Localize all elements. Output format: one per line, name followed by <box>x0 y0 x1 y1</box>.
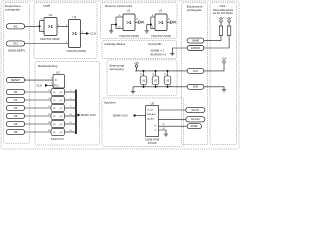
port A3 <box>6 113 24 118</box>
svg-text:74HCT02 (NOR): 74HCT02 (NOR) <box>40 37 60 41</box>
svg-text:U1: U1 <box>73 15 77 19</box>
ground U1d <box>145 31 149 34</box>
svg-text:D0-D7: D0-D7 <box>192 108 200 112</box>
node U1c open output <box>139 21 144 24</box>
port ROML <box>187 124 201 129</box>
svg-text:RESET: RESET <box>11 78 21 82</box>
svg-text:>1: >1 <box>158 20 164 25</box>
svg-text:(DE00-DEFF): (DE00-DEFF) <box>8 48 25 52</box>
port RESET <box>6 78 24 83</box>
wire EXROM tie low <box>172 48 187 53</box>
IC U2 74HCT174 control block <box>53 74 65 88</box>
svg-text:Cartridge-Modus:: Cartridge-Modus: <box>104 42 126 46</box>
power +5V R2 <box>227 16 232 26</box>
port GAME <box>187 38 204 43</box>
wire U3 A0-A12 <box>159 118 187 120</box>
section Reserve <box>101 3 178 39</box>
section Speicher <box>102 98 184 146</box>
wire U1c output stub <box>135 21 139 23</box>
IC U1 power unit <box>140 76 147 85</box>
wire U1a input tie <box>39 21 41 32</box>
svg-text:VCC: VCC <box>193 70 198 73</box>
junction PHI2 node <box>38 25 40 27</box>
svg-text:portsignale: portsignale <box>187 8 202 12</box>
junction +5V rail U3 <box>166 70 168 72</box>
wire GND to ground <box>204 87 224 90</box>
wire U1d output stub <box>167 21 171 23</box>
svg-text:U1: U1 <box>159 9 163 13</box>
wire U2 out 6Q <box>65 131 76 133</box>
svg-text:A0-A12: A0-A12 <box>147 118 155 121</box>
svg-text:IO1: IO1 <box>13 42 18 46</box>
svg-text:A3: A3 <box>14 114 18 118</box>
wire U1a out to U1b in <box>57 26 69 28</box>
port EXROM <box>187 46 204 51</box>
svg-text:A0-A12: A0-A12 <box>191 117 200 121</box>
wire IO1 to U1b <box>25 43 69 45</box>
wire U1d input pin9 <box>151 28 155 30</box>
op-amp U1c NOR gate <box>123 14 135 31</box>
svg-text:+5V: +5V <box>221 57 226 61</box>
wire U3 gnd pin <box>167 85 169 87</box>
svg-text:74HCT174: 74HCT174 <box>51 137 65 141</box>
svg-text:U1: U1 <box>142 78 146 82</box>
svg-text:+5V: +5V <box>218 16 223 20</box>
wire U1d input pin8 <box>151 16 155 18</box>
port A4 <box>6 121 24 126</box>
svg-text:74HCT02 (NOR): 74HCT02 (NOR) <box>151 34 171 38</box>
section Expansionsportsignale left <box>4 3 30 143</box>
wire U1c input tie <box>115 17 117 29</box>
wire U1 vcc pin <box>143 71 145 76</box>
svg-text:Normal 8k:: Normal 8k: <box>148 42 162 46</box>
ground EXROM <box>170 53 174 56</box>
wire U1d input tie <box>150 17 152 29</box>
svg-text:GND: GND <box>193 86 199 89</box>
node CLK source arrow <box>45 84 48 87</box>
port A5 <box>6 129 24 134</box>
wire U1a input pin2 <box>40 20 45 22</box>
wire U1c to ground <box>111 25 116 31</box>
wire A1 to U2 <box>25 99 51 101</box>
wire U2 out 2Q <box>65 99 76 101</box>
svg-text:U3: U3 <box>166 78 170 82</box>
svg-text:27C040: 27C040 <box>148 142 157 145</box>
svg-text:A5: A5 <box>14 130 18 134</box>
svg-text:BANK 0-63: BANK 0-63 <box>113 114 128 118</box>
svg-text:A1: A1 <box>14 98 18 102</box>
resistor R1 pullup GAME <box>219 26 222 35</box>
svg-text:U1: U1 <box>127 9 131 13</box>
wire U2 out 3Q <box>65 107 76 109</box>
svg-text:D0-D7: D0-D7 <box>147 110 154 112</box>
svg-text:portsignale: portsignale <box>5 7 20 11</box>
border frame <box>1 1 239 149</box>
wire BANK to U3 <box>137 115 146 117</box>
junction U1c inputs <box>115 24 117 26</box>
op-amp U1b NOR gate <box>69 20 81 48</box>
wire U3 vcc pin <box>167 71 169 76</box>
wire U1b output <box>81 33 87 35</box>
ground GND port <box>222 90 226 93</box>
svg-text:versorgung: versorgung <box>109 67 124 71</box>
IC U3 power unit <box>164 76 171 85</box>
wire U2 out 1Q <box>65 91 76 93</box>
op-amp U1a NOR gate <box>44 18 57 36</box>
wire U1c input pin11 <box>116 16 123 18</box>
svg-text:+5V: +5V <box>227 16 232 20</box>
port D0-D7 bus <box>186 107 205 112</box>
junction +5V rail U1 <box>142 70 144 72</box>
junction GND rail U1 <box>142 86 144 88</box>
svg-text:EXROM: EXROM <box>191 47 200 50</box>
node BANK arrow in <box>134 114 137 117</box>
section C64 Pullup <box>210 3 237 145</box>
svg-text:U3: U3 <box>150 101 154 105</box>
svg-text:74HCT02 (NOR): 74HCT02 (NOR) <box>119 34 139 38</box>
node U1d open output <box>171 21 176 24</box>
ground U3 G <box>164 134 168 137</box>
ground supply <box>131 87 135 94</box>
wire PHI2 to U1a <box>25 25 40 27</box>
svg-text:GAME: GAME <box>192 40 200 43</box>
svg-text:Reserve (unbenutzt): Reserve (unbenutzt) <box>105 4 132 8</box>
junction U1d inputs <box>150 24 152 26</box>
wire U1c input pin12 <box>116 28 123 30</box>
wire U2 out 4Q <box>65 115 76 117</box>
wire GND rail <box>133 86 187 88</box>
wire A4 to U2 <box>25 123 51 125</box>
wire VCC to +5V <box>204 63 224 71</box>
svg-text:ROML: ROML <box>191 125 199 128</box>
svg-text:>1: >1 <box>126 20 132 25</box>
node CLK arrow <box>86 32 89 35</box>
svg-text:U2: U2 <box>154 78 158 82</box>
wire U1 gnd pin <box>143 85 145 87</box>
svg-text:auf der C64 Platine: auf der C64 Platine <box>213 12 234 15</box>
svg-text:BANK 0-63: BANK 0-63 <box>81 113 96 117</box>
port A2 <box>6 105 24 110</box>
svg-text:>1: >1 <box>72 31 78 36</box>
IC U2 74HCT174 register cells <box>51 89 65 136</box>
section Logik <box>34 3 97 59</box>
port GND <box>187 84 204 89</box>
wire U3 D0-D7 <box>159 109 187 111</box>
wire U1d to ground <box>147 25 151 31</box>
wire RESET to U2 <box>25 79 53 81</box>
svg-text:Logik: Logik <box>43 4 51 8</box>
svg-text:/EXROM = 0: /EXROM = 0 <box>150 53 166 57</box>
junction GND rail U3 <box>166 86 168 88</box>
port A0-A12 bus <box>186 117 205 122</box>
resistor R2 pullup EXROM <box>227 26 230 35</box>
svg-text:Pullup-Widerstände: Pullup-Widerstände <box>213 9 234 12</box>
port A0 <box>6 89 24 94</box>
port PHI2 <box>6 24 24 29</box>
section Cartridge-Modus <box>102 41 177 59</box>
port A1 <box>6 97 24 102</box>
power +5V VCC <box>221 57 226 63</box>
wire CLK to U2 <box>48 84 53 86</box>
bus BANK 0-63 bar <box>75 90 77 135</box>
ground U1c <box>109 31 113 34</box>
svg-text:A2: A2 <box>14 106 18 110</box>
svg-text:Speicher: Speicher <box>104 100 116 104</box>
svg-text:74HCT02 (NOR): 74HCT02 (NOR) <box>66 49 86 53</box>
wire A5 to U2 <box>25 131 51 133</box>
svg-text:U1: U1 <box>49 13 53 17</box>
IC U2 power unit <box>152 76 159 85</box>
svg-text:>1: >1 <box>48 24 54 29</box>
port VCC <box>187 68 204 73</box>
wire R2 to EXROM <box>204 35 229 48</box>
svg-text:Bankswitching: Bankswitching <box>38 64 58 68</box>
wire A0 to U2 <box>25 91 51 93</box>
junction +5V rail U2 <box>154 70 156 72</box>
svg-text:A13-A18: A13-A18 <box>147 113 156 116</box>
svg-text:A4: A4 <box>14 122 18 126</box>
svg-text:+5V: +5V <box>134 61 139 65</box>
svg-text:CLK: CLK <box>37 83 43 87</box>
wire R1 to GAME <box>204 35 221 40</box>
svg-text:A0: A0 <box>14 90 18 94</box>
svg-text:CLK: CLK <box>90 32 96 36</box>
svg-text:C64: C64 <box>220 4 226 8</box>
node BANK arrow out <box>77 114 80 117</box>
section Spannungsversorgung <box>107 60 177 96</box>
power +5V R1 <box>218 16 223 26</box>
op-amp U1d NOR gate <box>155 14 167 31</box>
wire A3 to U2 <box>25 115 51 117</box>
section Expansionsportsignale right <box>182 3 208 145</box>
IC U3 EPROM <box>146 106 159 137</box>
svg-text:Φ2: Φ2 <box>14 24 18 28</box>
section Bankswitching <box>35 62 100 146</box>
wire U2 gnd pin <box>155 85 157 87</box>
wire A2 to U2 <box>25 107 51 109</box>
wire U2 out 5Q <box>65 123 76 125</box>
wire +5V rail <box>135 70 187 72</box>
port IO1 <box>6 41 24 46</box>
junction GND rail U2 <box>154 86 156 88</box>
wire U1a input pin3 <box>40 31 45 33</box>
wire U3 G to ground <box>159 130 167 134</box>
wire U3 E to ROML <box>159 125 187 127</box>
power +5V supply <box>134 61 139 71</box>
wire U2 vcc pin <box>155 71 157 76</box>
